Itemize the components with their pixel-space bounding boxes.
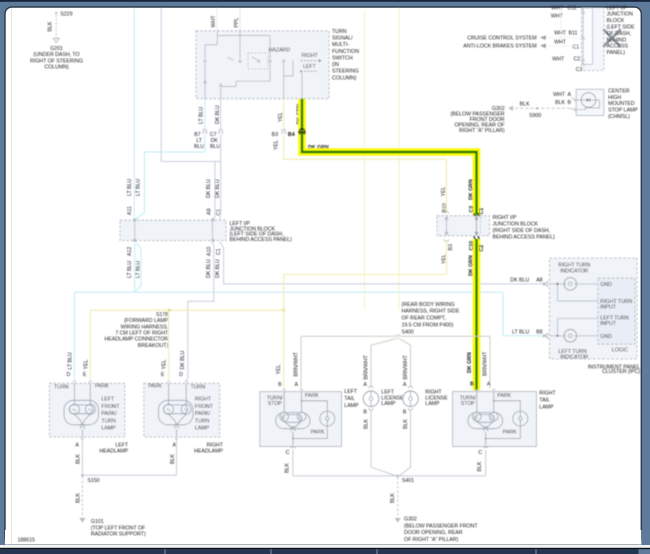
ground G201 symbol — [53, 39, 59, 43]
junction dots — [493, 400, 495, 402]
svg-text:(IN: (IN — [332, 62, 339, 68]
wire WHT vertical to page top — [560, 8, 562, 38]
svg-text:LOGIC: LOGIC — [612, 347, 628, 353]
svg-text:COLUMN): COLUMN) — [44, 65, 69, 71]
pin notches B A right tail — [475, 388, 495, 391]
svg-text:A: A — [173, 442, 177, 448]
svg-text:CLUSTER (IPC): CLUSTER (IPC) — [602, 369, 640, 375]
svg-text:DK BLU: DK BLU — [510, 278, 529, 284]
svg-text:WHT: WHT — [552, 57, 565, 63]
svg-text:(TOP LEFT FRONT OF: (TOP LEFT FRONT OF — [91, 525, 146, 531]
bottom black separator line — [0, 548, 650, 549]
svg-text:BLK: BLK — [520, 102, 530, 108]
splice S401 dot — [397, 475, 399, 477]
svg-text:RIGHT TURN: RIGHT TURN — [558, 262, 590, 268]
wire BLK horizontal to S150 — [82, 474, 176, 476]
svg-text:(LEFT SIDE: (LEFT SIDE — [607, 25, 635, 31]
svg-text:DOOR OPENING, REAR: DOOR OPENING, REAR — [404, 530, 463, 536]
right I/P junction block box — [437, 216, 490, 236]
pin notches D E left headlamp — [73, 380, 92, 383]
svg-text:C1: C1 — [479, 208, 485, 215]
CHMSL box — [576, 89, 604, 115]
svg-text:BLK: BLK — [363, 419, 369, 429]
svg-text:LT BLU: LT BLU — [199, 107, 205, 124]
IPC internal wires left turn — [549, 319, 598, 336]
arrow to cruise control — [540, 35, 546, 40]
svg-text:YEL: YEL — [441, 187, 447, 197]
left headlamp internals — [64, 383, 99, 437]
svg-text:DK GRN: DK GRN — [468, 255, 474, 276]
svg-text:GND: GND — [600, 334, 612, 340]
svg-text:RIGHT I/P: RIGHT I/P — [493, 215, 517, 221]
svg-text:JUNCTION BLOCK: JUNCTION BLOCK — [493, 222, 539, 228]
wire BLK from CHMSL B (dashed) — [570, 108, 574, 109]
svg-text:LT BLU: LT BLU — [127, 261, 133, 278]
IPC internal wires right turn — [549, 284, 598, 301]
wire YEL drop to left headlamp E — [89, 310, 91, 380]
svg-text:S401: S401 — [402, 478, 414, 484]
wire LT BLU below B7 to junction block A11 — [135, 135, 205, 220]
svg-text:GND: GND — [600, 282, 612, 288]
svg-text:A10: A10 — [206, 247, 212, 256]
svg-text:D: D — [67, 372, 71, 378]
svg-text:7 CM LEFT OF RIGHT: 7 CM LEFT OF RIGHT — [115, 331, 169, 337]
svg-text:A: A — [363, 382, 367, 388]
svg-text:C3: C3 — [469, 206, 475, 213]
svg-text:BRN/WHT: BRN/WHT — [482, 351, 488, 376]
wire BRN/WHT to right license A — [399, 339, 410, 388]
left tail lamp box — [260, 392, 342, 447]
wire BRN/WHT bus right of S400 — [400, 335, 490, 337]
wire LT BLU second lead from A12 — [135, 243, 141, 292]
svg-text:DK BLU: DK BLU — [180, 350, 186, 369]
junction block pass-through right — [212, 221, 214, 241]
svg-text:LAMP: LAMP — [425, 401, 440, 407]
pin ticks DK GRN top (black) — [474, 213, 480, 216]
svg-text:CRUISE CONTROL SYSTEM: CRUISE CONTROL SYSTEM — [467, 36, 536, 42]
svg-text:LAMP: LAMP — [101, 426, 116, 432]
svg-text:YEL: YEL — [83, 360, 89, 370]
svg-text:YEL: YEL — [274, 140, 280, 150]
svg-text:FRONT: FRONT — [101, 404, 120, 410]
wire LT BLU from A12 down — [134, 243, 136, 292]
svg-text:(FORWARD LAMP: (FORWARD LAMP — [124, 318, 169, 324]
svg-text:WHT: WHT — [551, 13, 564, 19]
svg-text:G302: G302 — [404, 517, 417, 523]
svg-text:BLK: BLK — [403, 419, 409, 429]
svg-text:LT BLU: LT BLU — [67, 352, 73, 369]
right tail internals — [468, 392, 528, 446]
pass-through arrow line YEL cavity — [445, 217, 448, 235]
svg-text:HIGH: HIGH — [608, 95, 621, 101]
svg-text:HEADLAMP CONNECTOR: HEADLAMP CONNECTOR — [105, 337, 169, 343]
svg-text:C: C — [286, 450, 290, 456]
svg-text:DK BLU: DK BLU — [206, 179, 212, 198]
wire BLK from right license B — [410, 410, 412, 468]
pin notches E D right headlamp — [167, 380, 188, 383]
X mark over block text — [604, 30, 620, 46]
pin B notch — [408, 408, 412, 410]
junction block pass-through left — [134, 221, 136, 241]
svg-text:PPL: PPL — [234, 18, 240, 28]
svg-text:S229: S229 — [60, 11, 72, 17]
svg-text:BEHIND ACCESS PANEL): BEHIND ACCESS PANEL) — [493, 235, 555, 241]
svg-text:BLK: BLK — [76, 454, 82, 464]
splice S900 dot — [536, 107, 538, 109]
svg-text:WHT: WHT — [554, 40, 567, 46]
svg-text:RIGHT: RIGHT — [539, 391, 556, 397]
svg-text:TURN: TURN — [191, 384, 206, 390]
bottom bar right steel corner — [639, 549, 650, 554]
window top dark line — [0, 0, 650, 2]
svg-text:LEFT: LEFT — [344, 389, 358, 395]
wire BLK from right headlamp A — [176, 440, 178, 476]
svg-text:PARK: PARK — [503, 429, 517, 435]
svg-text:(CHMSL): (CHMSL) — [608, 114, 630, 120]
svg-text:DK GRN: DK GRN — [467, 352, 473, 373]
wire YEL park bus horizontal — [90, 309, 283, 311]
splice S178 dot — [168, 309, 170, 311]
CHMSL LED diode mark — [587, 98, 590, 101]
wire BLK from left tail C — [292, 450, 294, 476]
svg-text:MULTI-: MULTI- — [332, 42, 349, 48]
bottom navy table bar — [0, 549, 650, 554]
svg-text:TAIL: TAIL — [344, 396, 355, 402]
wire BLK to G302 (dashed) — [397, 477, 399, 518]
highlighted DK GRN circuit: green core (lower run) — [475, 239, 477, 391]
pin arcs YEL top/bottom — [444, 211, 448, 241]
right license lamp connector notch — [408, 386, 412, 388]
arrow to ABS — [540, 43, 546, 48]
svg-text:A11: A11 — [127, 206, 133, 215]
highlighted DK GRN circuit: yellow halo (lower run) — [473, 239, 481, 391]
svg-text:C2: C2 — [576, 67, 583, 73]
left headlamp box — [49, 383, 124, 437]
svg-text:19.5 CM FROM P400): 19.5 CM FROM P400) — [402, 323, 454, 329]
svg-text:ACCESS: ACCESS — [607, 44, 629, 50]
svg-text:B8: B8 — [536, 329, 542, 335]
bottom bar separator ticks — [165, 549, 536, 554]
left license lamp — [363, 391, 379, 407]
svg-text:BREAKOUT): BREAKOUT) — [138, 343, 169, 349]
wire YEL vertical into right junction block — [446, 159, 448, 213]
CHMSL lamp circle — [581, 93, 596, 108]
svg-text:OF REAR COMPT,: OF REAR COMPT, — [402, 316, 446, 322]
svg-text:188615: 188615 — [18, 538, 35, 544]
wire DK BLU from switch to C7 — [220, 99, 222, 129]
svg-text:COLUMN): COLUMN) — [332, 75, 357, 81]
svg-text:RADIATOR SUPPORT): RADIATOR SUPPORT) — [91, 532, 146, 538]
top junction block box — [582, 8, 605, 71]
svg-text:WHT: WHT — [551, 6, 564, 12]
svg-text:FRONT: FRONT — [195, 404, 214, 410]
svg-text:A8: A8 — [536, 278, 542, 284]
svg-text:B10: B10 — [442, 203, 448, 212]
svg-text:LT BLU: LT BLU — [127, 179, 133, 196]
connector at B8 — [543, 333, 548, 339]
svg-text:(UNDER DASH, TO: (UNDER DASH, TO — [33, 52, 79, 58]
pass-through arrow line DK GRN cavity — [475, 217, 478, 235]
svg-text:C2: C2 — [574, 57, 581, 63]
svg-text:B: B — [278, 382, 282, 388]
page inner margin line — [11, 8, 13, 544]
svg-text:E: E — [161, 372, 165, 378]
svg-text:A: A — [568, 92, 572, 98]
svg-text:G201: G201 — [50, 46, 63, 52]
svg-text:A: A — [403, 382, 407, 388]
svg-text:A: A — [295, 382, 299, 388]
connector B3 — [282, 129, 286, 134]
svg-text:C1: C1 — [573, 45, 580, 51]
wire DK BLU from C1 bottom to IPC A8 — [220, 242, 546, 284]
svg-text:DK BLU: DK BLU — [215, 259, 221, 278]
left license lamp connector notch — [369, 386, 373, 388]
wire WHT to C1 — [546, 45, 582, 47]
svg-text:C10: C10 — [469, 241, 475, 251]
svg-text:LEFT: LEFT — [303, 64, 317, 70]
svg-text:RIGHT: RIGHT — [195, 397, 212, 403]
junction dots — [301, 400, 303, 402]
svg-text:PARK: PARK — [148, 384, 162, 390]
top junction block bus bar — [583, 8, 592, 64]
left turn indicator lamp — [564, 330, 577, 343]
svg-text:TURN: TURN — [195, 418, 210, 424]
page bottom gray border — [5, 544, 641, 546]
svg-text:DK BLU: DK BLU — [215, 105, 221, 124]
wire YEL faint vertical 2 (adjacent circuit) — [398, 8, 400, 310]
right junction block cavity C1/C2 — [480, 217, 482, 235]
svg-text:JUNCTION: JUNCTION — [607, 12, 634, 18]
switch contact circles — [204, 60, 285, 62]
wire LT BLU drop to left headlamp D — [73, 292, 75, 380]
wire YEL drop to right headlamp E — [168, 310, 170, 380]
svg-text:HARNESS, RIGHT SIDE: HARNESS, RIGHT SIDE — [402, 309, 460, 315]
pin C notch left tail — [291, 446, 295, 448]
right headlamp box — [144, 383, 220, 437]
svg-text:B3: B3 — [448, 244, 454, 250]
connector C7 — [219, 129, 223, 134]
svg-text:RIGHT: RIGHT — [302, 53, 319, 59]
svg-text:WHT: WHT — [554, 30, 567, 36]
svg-text:LAMP: LAMP — [381, 401, 396, 407]
svg-text:D: D — [179, 372, 183, 378]
pin A diagonal stub — [571, 97, 574, 100]
connector B7 — [203, 129, 207, 134]
svg-text:WHT: WHT — [211, 15, 217, 28]
svg-text:BLU: BLU — [194, 144, 204, 150]
wire BRN/WHT bus left of S400 — [301, 335, 395, 337]
svg-text:BLOCK: BLOCK — [607, 18, 625, 24]
svg-text:RIGHT “A” PILLAR): RIGHT “A” PILLAR) — [459, 128, 505, 134]
highlighted DK GRN circuit: green core (upper run) — [302, 99, 477, 216]
svg-text:BLK: BLK — [555, 100, 565, 106]
right license lamp — [403, 391, 419, 407]
lamp filament marks — [73, 409, 93, 411]
svg-text:HEADLAMP: HEADLAMP — [194, 448, 223, 454]
svg-text:TURN: TURN — [101, 418, 116, 424]
svg-text:C11: C11 — [568, 6, 577, 12]
svg-text:A: A — [75, 442, 79, 448]
svg-text:LEFT I/P: LEFT I/P — [607, 5, 628, 11]
svg-text:BLK: BLK — [48, 21, 54, 31]
svg-text:MOUNTED: MOUNTED — [608, 101, 635, 107]
svg-text:B: B — [363, 410, 367, 416]
svg-text:B: B — [403, 410, 407, 416]
svg-text:PARK: PARK — [311, 429, 325, 435]
wire BLK to G101 (dashed) — [81, 477, 83, 518]
svg-text:STOP LAMP: STOP LAMP — [608, 108, 638, 114]
svg-text:LT BLU: LT BLU — [512, 329, 529, 335]
wire BRN/WHT to left tail A — [300, 336, 302, 388]
pin C notch right tail — [484, 446, 488, 448]
svg-text:BRN/WHT: BRN/WHT — [363, 354, 369, 379]
wire BLK from left headlamp A — [81, 440, 83, 476]
junction dot — [556, 283, 558, 285]
svg-text:S150: S150 — [87, 478, 99, 484]
wire DK BLU feed from page top — [160, 8, 162, 162]
bus bar pin notches — [581, 11, 584, 62]
svg-text:B4: B4 — [288, 132, 295, 138]
node: LT BLU feed from page top — [133, 8, 135, 218]
svg-text:S178: S178 — [156, 312, 168, 318]
pin A9 mark — [212, 218, 215, 221]
svg-text:FUNCTION: FUNCTION — [332, 49, 359, 55]
svg-text:S900: S900 — [529, 113, 541, 119]
svg-text:LT BLU: LT BLU — [136, 179, 142, 196]
svg-text:STEERING: STEERING — [332, 69, 359, 75]
svg-text:INDICATOR: INDICATOR — [560, 355, 588, 361]
filament marks — [474, 416, 477, 419]
pin ticks DK GRN bottom (black) — [474, 236, 480, 239]
wire BLK from left license B — [370, 410, 372, 468]
pin A notch right headlamp — [175, 437, 178, 440]
svg-text:BEHIND ACCESS PANEL): BEHIND ACCESS PANEL) — [230, 237, 292, 243]
wire DK BLU below C7 to junction block — [161, 135, 221, 220]
svg-text:BLK: BLK — [76, 493, 82, 503]
svg-text:PARK: PARK — [95, 384, 109, 390]
splice S229 marker — [55, 11, 58, 14]
svg-text:CENTER: CENTER — [608, 89, 630, 95]
lamp filament marks — [167, 409, 188, 411]
svg-text:BLK: BLK — [390, 493, 396, 503]
ground G302 arrow (top) — [508, 106, 513, 111]
pin A11 mark — [133, 218, 136, 221]
svg-text:LAMP: LAMP — [344, 403, 359, 409]
svg-text:A: A — [487, 382, 491, 388]
svg-text:ANTI-LOCK BRAKES SYSTEM: ANTI-LOCK BRAKES SYSTEM — [463, 44, 536, 50]
svg-text:B: B — [470, 382, 474, 388]
wire WHT to B11 — [546, 37, 582, 39]
switch internal wires — [204, 31, 302, 99]
junction dot YEL at left tail riser — [282, 309, 285, 312]
svg-text:SIGNAL/: SIGNAL/ — [332, 35, 353, 41]
svg-text:S400: S400 — [402, 329, 414, 335]
svg-text:BLU: BLU — [210, 144, 220, 150]
wire BRN/WHT to right tail A — [489, 336, 491, 388]
svg-text:RIGHT OF STEERING: RIGHT OF STEERING — [30, 58, 83, 64]
filament marks — [282, 416, 285, 419]
svg-text:BLK: BLK — [284, 463, 290, 473]
svg-text:B: B — [568, 100, 572, 106]
svg-text:BLK: BLK — [170, 454, 176, 464]
wire DK BLU from A10 down-left to right headlamp D — [187, 242, 214, 381]
pin C2 bottom diagonal — [582, 62, 585, 66]
svg-text:LEFT: LEFT — [101, 397, 115, 403]
svg-text:OF RIGHT “A” PILLAR): OF RIGHT “A” PILLAR) — [404, 537, 459, 543]
svg-text:A12: A12 — [127, 247, 133, 256]
bottom white strip — [0, 545, 650, 548]
wire BLK horizontal bottom bus — [293, 475, 486, 477]
wire BLK from right tail C — [485, 450, 487, 476]
svg-text:BLK: BLK — [477, 461, 483, 471]
wire YEL from switch to B3 — [283, 99, 285, 129]
MAIN DIAGRAM — [0, 0, 1, 1]
svg-text:DK BLU: DK BLU — [215, 179, 221, 198]
svg-text:YEL: YEL — [278, 112, 284, 122]
wire LT BLU horizontal bus — [74, 291, 503, 293]
svg-text:PARK/: PARK/ — [101, 411, 117, 417]
svg-text:BRN/WHT: BRN/WHT — [403, 354, 409, 379]
wire PPL into switch — [239, 8, 241, 31]
wire WHT into switch — [216, 8, 218, 31]
turn signal / multifunction switch box — [196, 31, 329, 99]
svg-text:DK BLU: DK BLU — [206, 259, 212, 278]
wire YEL B3 elbow to right junction block — [284, 135, 447, 160]
wire BLK from S229 to G201 (dashed) — [55, 15, 57, 38]
svg-text:C2: C2 — [479, 245, 485, 252]
instrument panel cluster box — [550, 258, 638, 359]
wire LT BLU from switch to B7 — [204, 99, 206, 129]
left tail internals — [276, 392, 335, 445]
right tail lamp box — [453, 392, 537, 447]
svg-text:BEHIND: BEHIND — [607, 37, 627, 43]
svg-text:STOP: STOP — [268, 401, 283, 407]
svg-text:C: C — [478, 450, 482, 456]
svg-text:PARK/: PARK/ — [195, 411, 211, 417]
CHMSL internal bracket to B — [576, 100, 599, 110]
svg-text:E: E — [83, 372, 87, 378]
svg-text:LAMP: LAMP — [539, 404, 554, 410]
highlighted DK GRN circuit: yellow halo (upper run) — [302, 99, 477, 216]
svg-text:C1: C1 — [216, 248, 222, 255]
svg-text:BRN/WHT: BRN/WHT — [294, 351, 300, 376]
svg-text:(BELOW PASSENGER FRONT: (BELOW PASSENGER FRONT — [404, 523, 478, 529]
svg-text:YEL: YEL — [276, 365, 282, 375]
svg-text:B11: B11 — [569, 30, 578, 36]
wire LT BLU to IPC B8 — [503, 292, 546, 336]
pin notches A and B — [573, 99, 576, 112]
svg-text:YEL: YEL — [162, 360, 168, 370]
svg-text:HAZARD: HAZARD — [269, 47, 291, 53]
pin A12 mark — [133, 239, 136, 242]
svg-text:TURN: TURN — [332, 29, 347, 35]
wire BRN/WHT to left license A — [371, 339, 397, 388]
svg-text:WIRING HARNESS,: WIRING HARNESS, — [121, 324, 169, 330]
svg-text:INDICATOR: INDICATOR — [560, 269, 588, 275]
svg-text:HEADLAMP: HEADLAMP — [99, 448, 128, 454]
svg-text:SWITCH: SWITCH — [332, 55, 353, 61]
left I/P junction block box — [120, 220, 226, 240]
right headlamp internals — [158, 383, 193, 437]
svg-text:STOP: STOP — [461, 401, 476, 407]
svg-text:A9: A9 — [206, 209, 212, 215]
svg-text:INPUT: INPUT — [600, 321, 616, 327]
svg-text:OF DASH,: OF DASH, — [607, 31, 632, 37]
wire DK BLU branch to C1 pin — [219, 162, 222, 220]
svg-text:C1: C1 — [216, 209, 222, 216]
junction dot — [556, 335, 558, 337]
right turn indicator lamp — [564, 278, 577, 291]
